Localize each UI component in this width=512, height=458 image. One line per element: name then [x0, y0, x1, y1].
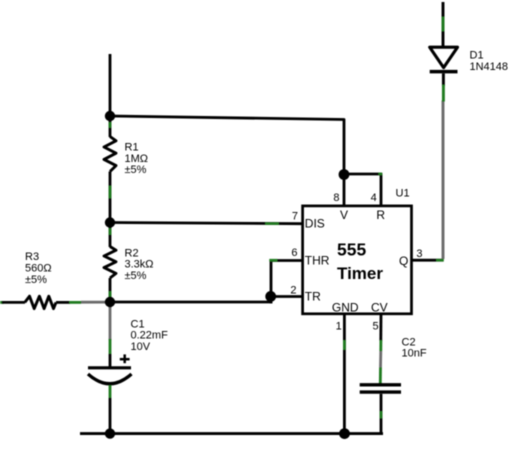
svg-text:3: 3	[416, 248, 422, 260]
svg-text:C2: C2	[402, 336, 416, 348]
resistor R2 zigzag	[104, 247, 116, 279]
node junction ground left	[105, 428, 115, 438]
svg-text:6: 6	[291, 247, 297, 259]
wire green terminal	[0, 301, 4, 304]
wire green terminal	[109, 291, 112, 298]
svg-text:R1: R1	[125, 142, 139, 154]
resistor R1	[104, 116, 148, 223]
capacitor C1 top plate	[88, 366, 131, 369]
wire	[109, 116, 112, 137]
svg-text:Timer: Timer	[337, 264, 383, 283]
wire green terminal pin6	[269, 259, 277, 262]
wire green terminal	[69, 301, 81, 304]
resistor R1 zigzag	[104, 137, 116, 172]
svg-text:GND: GND	[332, 301, 359, 315]
wire	[109, 278, 112, 302]
capacitor C1	[88, 302, 168, 434]
svg-text:1N4148: 1N4148	[470, 61, 509, 73]
svg-text:10nF: 10nF	[402, 348, 427, 360]
wire	[270, 261, 273, 304]
wire green terminal pin1	[343, 340, 346, 350]
IC U1 555 Timer	[290, 187, 422, 332]
wire green terminal	[109, 186, 112, 199]
svg-text:THR: THR	[305, 254, 330, 268]
resistor R3 zigzag	[25, 296, 56, 308]
svg-text:560Ω: 560Ω	[25, 263, 52, 275]
wire pin 8 stub	[343, 175, 346, 206]
wire gray	[379, 351, 382, 368]
svg-text:U1: U1	[396, 187, 410, 199]
svg-text:555: 555	[337, 240, 366, 260]
wire green terminal	[442, 85, 445, 102]
wire to pin 6	[270, 259, 302, 262]
wire green terminal	[379, 340, 382, 351]
wire	[109, 398, 112, 434]
svg-text:TR: TR	[305, 289, 321, 303]
svg-text:7: 7	[292, 211, 298, 223]
svg-text:1: 1	[336, 320, 342, 332]
svg-text:5: 5	[372, 320, 378, 332]
svg-text:0.22mF: 0.22mF	[131, 330, 169, 342]
svg-text:CV: CV	[371, 301, 388, 315]
svg-text:D1: D1	[470, 50, 484, 62]
capacitor C1 plus sign	[120, 358, 130, 361]
wire gray	[81, 301, 110, 304]
node junction TR	[265, 291, 276, 302]
capacitor C2	[360, 314, 427, 434]
diode D1 triangle	[430, 47, 458, 67]
wire	[110, 116, 344, 175]
resistor R3	[0, 251, 110, 308]
svg-text:DIS: DIS	[305, 217, 325, 231]
wire green terminal	[109, 228, 112, 235]
svg-text:1MΩ: 1MΩ	[125, 153, 149, 165]
wire pin 3 Q output	[411, 259, 444, 262]
node junction TR/THR	[105, 297, 115, 307]
wire gray Q to diode	[442, 101, 445, 260]
capacitor C2 bottom plate	[360, 390, 401, 393]
wire pin 1 GND stub	[343, 314, 346, 434]
wire	[380, 394, 383, 434]
wire	[109, 223, 112, 248]
wire green terminal pin4	[378, 173, 382, 176]
svg-text:R: R	[376, 208, 385, 222]
capacitor C2 top plate	[360, 383, 401, 386]
node junction V+ top	[105, 111, 115, 121]
wire pin 5 stub	[379, 314, 382, 341]
node junction ground right	[339, 428, 350, 439]
svg-text:V: V	[340, 208, 348, 222]
wire	[344, 174, 381, 205]
node junction pin8	[339, 169, 350, 180]
svg-text:3.3kΩ: 3.3kΩ	[125, 259, 154, 271]
svg-text:8: 8	[333, 192, 339, 204]
capacitor C1 curved plate	[88, 374, 132, 384]
wire	[109, 54, 112, 116]
wire bottom rail	[80, 432, 383, 435]
wire	[56, 301, 70, 304]
wire green terminal	[265, 222, 279, 225]
wire green terminal	[109, 385, 112, 398]
svg-text:2: 2	[290, 284, 296, 296]
diode D1 cathode bar	[430, 70, 458, 74]
svg-text:±5%: ±5%	[25, 274, 47, 286]
wire green terminal	[442, 17, 445, 32]
svg-text:4: 4	[371, 192, 377, 204]
svg-text:±5%: ±5%	[125, 270, 147, 282]
wire green terminal	[380, 411, 383, 419]
wire gray	[109, 302, 112, 340]
wire to pin 2	[271, 295, 302, 298]
wire	[442, 74, 445, 87]
svg-text:10V: 10V	[131, 341, 151, 353]
wire green terminal	[109, 339, 112, 354]
wire green terminal pin3	[436, 259, 444, 262]
svg-text:C1: C1	[131, 318, 145, 330]
node junction DIS	[105, 217, 115, 227]
wire to pin 7	[110, 223, 302, 224]
resistor R2	[104, 223, 154, 303]
wire THR/TR branch	[110, 301, 272, 304]
wire	[109, 354, 112, 367]
svg-text:Q: Q	[399, 254, 408, 268]
wire	[442, 2, 445, 48]
wire green terminal	[379, 368, 382, 385]
svg-text:±5%: ±5%	[125, 164, 147, 176]
wire	[2, 301, 25, 304]
svg-text:R3: R3	[25, 251, 39, 263]
wire green terminal	[109, 122, 112, 128]
svg-text:R2: R2	[125, 247, 139, 259]
diode D1	[430, 2, 508, 102]
wire	[109, 172, 112, 223]
